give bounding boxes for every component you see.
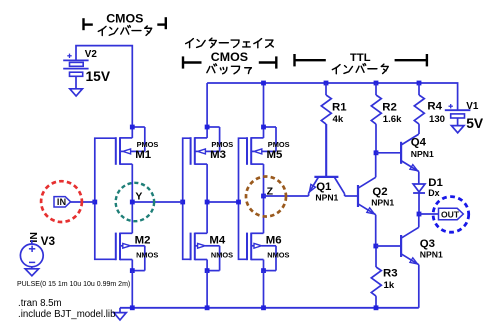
svg-text:130: 130 xyxy=(429,114,445,125)
svg-text:.include BJT_model.lib: .include BJT_model.lib xyxy=(18,309,115,320)
junction Q3 base node xyxy=(373,244,378,249)
svg-text:NMOS: NMOS xyxy=(211,251,233,260)
resistor R3 xyxy=(371,246,381,308)
wire Q1 collector to Q2 base xyxy=(345,195,358,197)
label PMOS M3 xyxy=(211,140,233,149)
label M5 xyxy=(267,149,283,161)
value 4k xyxy=(333,114,344,125)
junction rail R1 xyxy=(324,81,329,86)
svg-text:V2: V2 xyxy=(85,49,98,60)
value 130 xyxy=(429,114,445,125)
junction gate rail M3/M4 xyxy=(180,200,185,205)
junction rail M6 xyxy=(261,305,266,310)
resistor R4 xyxy=(414,83,424,134)
label M2 xyxy=(135,235,151,247)
svg-text:Q4: Q4 xyxy=(411,137,427,149)
junction gate rail M5/M6 xyxy=(236,200,241,205)
wire M4 drain up xyxy=(206,202,208,233)
svg-text:R3: R3 xyxy=(383,267,398,279)
ground symbol rail xyxy=(114,313,127,320)
section bracket: interface CMOS buffer xyxy=(183,56,276,68)
svg-text:TTL: TTL xyxy=(350,52,371,64)
svg-text:.tran 8.5m: .tran 8.5m xyxy=(18,298,62,309)
junction IN node xyxy=(92,200,97,205)
svg-text:15V: 15V xyxy=(86,69,111,84)
gate rail M3/M4 xyxy=(183,138,191,259)
wire M5 drain to node Z xyxy=(263,164,265,196)
svg-text:Q2: Q2 xyxy=(372,186,387,198)
junction node Z xyxy=(261,194,266,199)
svg-text:OUT: OUT xyxy=(441,209,460,219)
wire M6 source to ground rail xyxy=(263,271,265,308)
label PMOS M1 xyxy=(137,140,159,149)
nmos transistor M6 xyxy=(247,233,276,273)
label V1 xyxy=(466,101,479,112)
wire M3/M4 drains to M5/M6 gates xyxy=(207,201,238,203)
svg-text:M6: M6 xyxy=(266,235,282,247)
wire M4 source to ground rail xyxy=(206,271,208,308)
svg-text:4k: 4k xyxy=(333,114,344,125)
junction rail M5 xyxy=(261,81,266,86)
label node Y xyxy=(135,190,142,202)
label Q4 xyxy=(411,137,427,149)
svg-text:CMOS: CMOS xyxy=(211,50,248,64)
wire M2 source to ground rail xyxy=(131,271,133,308)
transistor Q2 xyxy=(358,177,376,214)
highlight circle IN (red dashed) xyxy=(41,181,82,222)
transistor Q4 xyxy=(401,134,419,171)
label V2 xyxy=(85,49,98,60)
label Q2 xyxy=(372,186,387,198)
wire Q3 emitter to ground rail xyxy=(418,265,420,308)
svg-text:NPN1: NPN1 xyxy=(411,149,434,159)
svg-text:Q3: Q3 xyxy=(420,238,435,250)
resistor R1 xyxy=(321,83,331,177)
pmos transistor M5 xyxy=(247,125,276,165)
value PULSE xyxy=(17,281,130,288)
svg-text:Dx: Dx xyxy=(428,188,439,198)
port flag OUT xyxy=(439,208,464,219)
label NPN1 Q3 xyxy=(420,249,443,259)
junction node Y xyxy=(130,200,135,205)
section label: TTL xyxy=(350,52,371,64)
junction Q2 collector node xyxy=(374,150,379,155)
ground below V3 xyxy=(25,269,38,276)
section label: buffer (katakana) xyxy=(207,64,251,74)
section label: interface (katakana) xyxy=(186,38,274,48)
junction rail M4 xyxy=(205,305,210,310)
svg-text:D1: D1 xyxy=(428,177,443,189)
svg-text:R2: R2 xyxy=(382,102,397,114)
junction rail R3 xyxy=(374,305,379,310)
ground below V1 xyxy=(451,126,464,133)
section label: inverter (katakana) xyxy=(98,25,151,35)
svg-text:NPN1: NPN1 xyxy=(315,193,338,203)
svg-text:PULSE(0 15 1m 10u 10u 0.99m 2m: PULSE(0 15 1m 10u 10u 0.99m 2m) xyxy=(17,281,130,288)
label M4 xyxy=(209,235,225,247)
label V3 xyxy=(41,234,56,248)
label NPN1 Q4 xyxy=(411,149,434,159)
voltage source V1 battery xyxy=(445,104,471,126)
value 1.6k xyxy=(383,114,402,125)
junction OUT node xyxy=(417,212,422,217)
junction rail R2 xyxy=(374,81,379,86)
svg-text:1.6k: 1.6k xyxy=(383,114,402,125)
wire M1 drain to node Y xyxy=(131,164,133,202)
highlight circle Z (brown dashed) xyxy=(246,177,286,217)
wire Q2 collector node to Q4 base xyxy=(376,152,401,154)
svg-text:M1: M1 xyxy=(135,149,151,161)
wire node Z to Q1 emitter xyxy=(264,195,309,197)
highlight circle Y (teal dashed) xyxy=(116,183,154,221)
5V supply rail xyxy=(207,83,458,110)
ground rail left end xyxy=(119,308,121,313)
junction M3/M4 output xyxy=(205,200,210,205)
label R3 xyxy=(383,267,398,279)
section bracket: CMOS inverter xyxy=(84,17,166,30)
diode D1 xyxy=(413,184,425,214)
wire OUT node to flag xyxy=(419,213,439,215)
value 1k xyxy=(384,280,395,291)
net label IN rotated (above V3) xyxy=(28,232,40,243)
svg-text:R4: R4 xyxy=(427,100,442,112)
svg-text:NPN1: NPN1 xyxy=(420,249,443,259)
wire node Z to M6 drain xyxy=(263,196,265,233)
label NPN1 Q1 xyxy=(315,193,338,203)
label M3 xyxy=(210,149,226,161)
pmos transistor M3 xyxy=(191,125,220,165)
svg-text:Q1: Q1 xyxy=(316,181,332,193)
section bracket: TTL inverter xyxy=(295,54,427,66)
label Q1 xyxy=(316,181,332,193)
label D1 xyxy=(428,177,443,189)
svg-text:IN: IN xyxy=(28,232,40,243)
wire Q2 collector up xyxy=(375,153,377,178)
label NMOS M4 xyxy=(211,251,233,260)
svg-text:NPN1: NPN1 xyxy=(371,198,394,208)
wire IN to gate rail xyxy=(71,201,95,203)
svg-text:IN: IN xyxy=(57,197,67,207)
section label: CMOS xyxy=(106,12,143,26)
svg-text:M5: M5 xyxy=(267,149,283,161)
value 15V xyxy=(86,69,111,84)
label R2 xyxy=(382,102,397,114)
transistor Q1 (rotated NPN) xyxy=(309,124,345,196)
wire 5V rail to M5 xyxy=(263,83,265,125)
port flag IN xyxy=(54,197,71,207)
gate rail M1/M2 xyxy=(95,138,116,259)
label R4 xyxy=(427,100,442,112)
value 5V xyxy=(466,116,484,131)
wire node Y to M3/M4 gates xyxy=(132,201,182,203)
svg-text:NMOS: NMOS xyxy=(136,251,158,260)
svg-text:Y: Y xyxy=(135,190,142,202)
svg-text:NMOS: NMOS xyxy=(267,251,289,260)
nmos transistor M4 xyxy=(191,233,220,273)
wire M3 drain down xyxy=(206,164,208,202)
transistor Q3 xyxy=(401,227,419,264)
svg-text:V3: V3 xyxy=(41,234,56,248)
voltage source V2 battery xyxy=(63,54,88,89)
resistor R2 xyxy=(371,83,381,153)
directive .tran xyxy=(18,298,62,309)
svg-text:CMOS: CMOS xyxy=(106,12,143,26)
svg-text:M4: M4 xyxy=(209,235,225,247)
label node Z xyxy=(267,185,274,197)
wire Q2 emitter down xyxy=(375,215,377,246)
wire V2 to M1 supply xyxy=(76,46,132,125)
label R1 xyxy=(332,102,347,114)
ground below V2 xyxy=(70,89,83,96)
wire node Y to M2 drain xyxy=(131,202,133,233)
wire 5V rail to M3 xyxy=(206,83,208,125)
junction rail R4 xyxy=(417,81,422,86)
svg-text:1k: 1k xyxy=(384,280,395,291)
wire Q3 collector to OUT node xyxy=(418,214,420,227)
highlight circle OUT (blue dashed) xyxy=(433,197,469,233)
label M1 xyxy=(135,149,151,161)
section label: CMOS 2 xyxy=(211,50,248,64)
label NPN1 Q2 xyxy=(371,198,394,208)
gate rail M5/M6 xyxy=(239,138,247,259)
voltage source V3 (pulse) xyxy=(20,240,43,269)
directive .include xyxy=(18,309,115,320)
label Dx xyxy=(428,188,439,198)
label M6 xyxy=(266,235,282,247)
label Q3 xyxy=(420,238,435,250)
svg-text:5V: 5V xyxy=(466,116,484,131)
wire Q4 emitter to D1 xyxy=(418,172,420,185)
svg-text:V1: V1 xyxy=(466,101,479,112)
nmos transistor M2 xyxy=(116,233,145,273)
wire Q3 base xyxy=(376,245,401,247)
junction rail M2 xyxy=(130,305,135,310)
pmos transistor M1 xyxy=(116,125,145,165)
svg-text:M2: M2 xyxy=(135,235,151,247)
svg-text:M3: M3 xyxy=(210,149,226,161)
ground rail xyxy=(120,307,419,309)
section label: inverter 2 (katakana) xyxy=(332,64,388,74)
svg-text:R1: R1 xyxy=(332,102,347,114)
label NMOS M2 xyxy=(136,251,158,260)
label PMOS M5 xyxy=(268,140,290,149)
label NMOS M6 xyxy=(267,251,289,260)
